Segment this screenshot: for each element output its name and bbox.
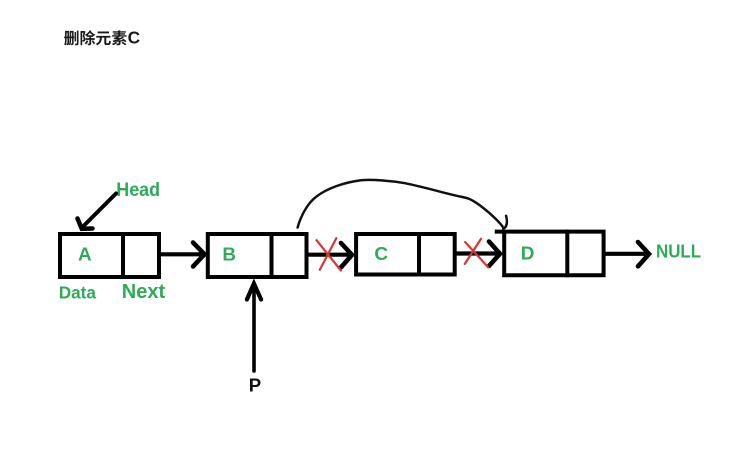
wire arrow D to NULL bbox=[606, 242, 650, 266]
svg-text:P: P bbox=[249, 375, 261, 396]
node B box bbox=[208, 232, 307, 279]
wire arrow A to B bbox=[160, 243, 205, 267]
svg-text:NULL: NULL bbox=[656, 240, 701, 261]
svg-text:B: B bbox=[222, 245, 236, 266]
bypass curve from node B next to node D bbox=[298, 180, 503, 228]
svg-text:D: D bbox=[521, 244, 535, 265]
red X over B-C link bbox=[317, 238, 341, 270]
bypass curve end hook at node D bbox=[503, 216, 507, 229]
svg-text:C: C bbox=[374, 244, 388, 265]
svg-text:Data: Data bbox=[59, 283, 97, 303]
pointer P arrow to node B bbox=[247, 284, 261, 372]
Head arrow to node A bbox=[78, 194, 117, 229]
title 删除元素C bbox=[64, 28, 140, 48]
wire arrow B to C (broken) bbox=[308, 243, 352, 267]
node D box bbox=[495, 230, 604, 278]
svg-text:Next: Next bbox=[122, 281, 166, 303]
svg-text:C: C bbox=[128, 28, 140, 48]
red X over C-D link bbox=[465, 239, 488, 267]
svg-text:A: A bbox=[78, 245, 92, 266]
wire arrow C to D (broken) bbox=[457, 242, 500, 267]
svg-text:Head: Head bbox=[116, 179, 160, 201]
node C box bbox=[356, 232, 455, 277]
node A box bbox=[60, 232, 159, 279]
